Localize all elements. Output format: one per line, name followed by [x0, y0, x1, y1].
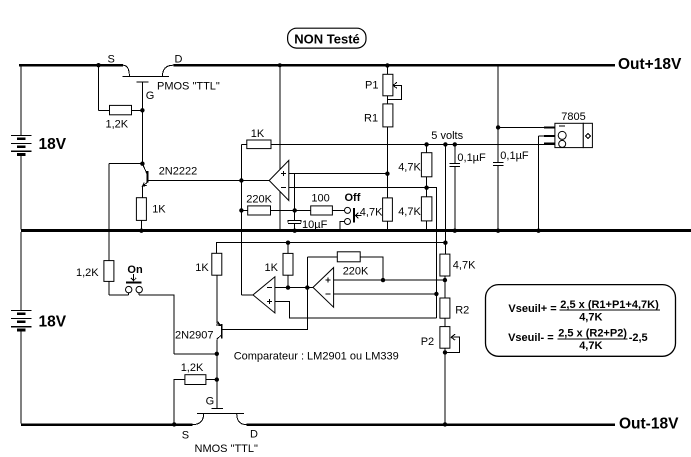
svg-text:2,5 x (R1+P1+4,7K): 2,5 x (R1+P1+4,7K): [560, 299, 659, 311]
svg-text:5 volts: 5 volts: [431, 130, 463, 142]
svg-text:2N2222: 2N2222: [159, 166, 198, 178]
svg-text:1,2K: 1,2K: [181, 362, 204, 374]
node dot C2 at 5V rail: [453, 142, 457, 146]
svg-text:1,2K: 1,2K: [76, 267, 99, 279]
op-amp U4 comparator lower right: [313, 268, 334, 308]
resistor R1: [383, 104, 393, 127]
svg-text:D: D: [250, 429, 258, 441]
resistor R13 1,2K gate: [185, 375, 206, 385]
label Vseuil- formula: [508, 328, 648, 353]
wire U3 plus detour to 2.5V: [275, 302, 437, 318]
resistor R7 100: [311, 206, 333, 215]
wire R15 left to output line: [307, 256, 337, 258]
wire P2 bottom: [444, 348, 446, 352]
capacitor C3 0,1uF: [493, 65, 504, 231]
svg-text:4,7K: 4,7K: [453, 260, 476, 272]
label plus of U4: [325, 278, 330, 283]
node dot R16/R2 junction: [443, 278, 447, 282]
svg-text:R2: R2: [455, 305, 469, 317]
label minus of U4: [325, 293, 330, 295]
wire rail to P1: [386, 65, 388, 74]
wire R8 to rail: [386, 221, 388, 231]
svg-text:G: G: [146, 90, 155, 102]
switch SW2 On: [109, 274, 143, 295]
wire U3 minus line / U4 output line: [275, 287, 313, 289]
node dot P2 bottom: [443, 350, 447, 354]
svg-text:220K: 220K: [246, 194, 272, 206]
wire P2 to Out-18V rail: [444, 352, 446, 424]
node dot R4 at rail: [139, 229, 143, 233]
resistor R5 1K pull-up 5V: [247, 140, 271, 149]
wire collector node to on-switch line: [174, 353, 217, 355]
wire R7 left: [295, 209, 311, 211]
node dot R1 chain at plus line: [385, 172, 389, 176]
node dot C1 at rail: [293, 229, 297, 233]
node dot 7805 input: [496, 125, 500, 129]
node dot Q3 collector: [215, 352, 219, 356]
node dot 1,2K right: [215, 377, 219, 381]
node dot C3 at 0V rail: [496, 229, 500, 233]
svg-text:2N2907: 2N2907: [175, 330, 214, 342]
wire R3 to gate line: [132, 109, 143, 111]
wire R5 left: [241, 143, 246, 145]
node dot P2 line at rail: [443, 422, 447, 426]
wire R6 right: [271, 209, 295, 211]
node 0V middle rail: [21, 229, 691, 232]
resistor R16 4,7K lower: [440, 254, 450, 276]
node dot R13 at rail: [172, 422, 176, 426]
wire long vertical to lower section 1,2K: [108, 164, 110, 261]
wire R2 to P2: [444, 318, 446, 326]
node Out-18V bottom rail right segment: [246, 423, 615, 426]
svg-text:18V: 18V: [39, 314, 67, 331]
node dot 2.5V at op3 minus: [434, 292, 438, 296]
wire collector node to left: [109, 163, 143, 165]
wire op1 power from +18V rail: [279, 65, 281, 231]
svg-text:1K: 1K: [265, 262, 279, 274]
svg-text:NON Testé: NON Testé: [294, 32, 360, 47]
transistor Q4 NMOS: [193, 408, 247, 424]
svg-text:1K: 1K: [251, 128, 265, 140]
node dot 100/10uF: [293, 208, 297, 212]
wire base of Q2 to comparator output: [147, 180, 269, 182]
svg-text:Out+18V: Out+18V: [618, 56, 682, 73]
node gate junction dot: [140, 108, 144, 112]
wire R4 to 0V rail: [140, 220, 142, 231]
wiper of P2: [445, 334, 460, 352]
wire 2.5V reference to lower section: [427, 188, 437, 318]
svg-text:1K: 1K: [152, 204, 166, 216]
label minus of U3: [267, 287, 272, 289]
svg-text:0,1µF: 0,1µF: [500, 150, 529, 162]
wire R14 bottom: [287, 275, 289, 287]
label plus of U3: [267, 299, 272, 304]
node 5 volts rail wire: [271, 143, 544, 145]
wire R15 right to plus line: [360, 257, 383, 280]
wire U4 plus line: [334, 279, 445, 281]
annotation formula box: [486, 285, 676, 357]
battery B1 18V upper: [11, 67, 31, 230]
wire output node vertical (1K/220K left to op2 output): [240, 144, 242, 295]
node dot 220K left at output line: [305, 285, 309, 289]
wire R9 top to 5V rail: [426, 144, 428, 152]
svg-text:PMOS "TTL": PMOS "TTL": [157, 81, 220, 93]
node 5V lower distribution rail: [217, 243, 446, 254]
node dot at 220K left: [239, 208, 243, 212]
wire R6 left: [241, 209, 247, 211]
wire On right contact to collector line: [139, 295, 174, 354]
node Out+18V top rail left segment: [19, 64, 123, 67]
svg-text:4,7K: 4,7K: [398, 206, 421, 218]
svg-text:Out-18V: Out-18V: [619, 416, 679, 433]
op-amp U3 comparator lower left: [253, 277, 275, 313]
wire collector node down to gate: [216, 354, 218, 409]
label Vseuil+ formula: [508, 299, 660, 324]
wire R14 top: [287, 243, 289, 254]
svg-text:4,7K: 4,7K: [579, 312, 602, 324]
wire R11 to 2N2907 emitter: [216, 275, 218, 323]
wire from S node down: [98, 65, 100, 110]
svg-text:0,1µF: 0,1µF: [457, 152, 486, 164]
svg-text:1K: 1K: [195, 262, 209, 274]
wiper of P1: [388, 82, 402, 99]
wire U3 output to vertical: [241, 294, 253, 296]
svg-text:100: 100: [311, 193, 329, 205]
resistor R8 4,7K: [383, 198, 393, 221]
resistor R9 4,7K divider top: [421, 153, 432, 177]
resistor R15 220K lower feedback: [337, 252, 360, 262]
svg-text:NMOS "TTL": NMOS "TTL": [195, 443, 259, 455]
svg-text:D: D: [175, 54, 183, 66]
node dot lower rail right end: [443, 241, 447, 245]
svg-text:-2,5: -2,5: [629, 332, 648, 344]
wire R13 left to Out-18V rail: [174, 380, 185, 425]
svg-text:10µF: 10µF: [302, 219, 328, 231]
svg-text:S: S: [108, 54, 115, 66]
svg-text:R1: R1: [364, 113, 378, 125]
svg-text:220K: 220K: [343, 266, 369, 278]
svg-text:G: G: [206, 396, 215, 408]
node dot 2.5V midpoint: [424, 186, 428, 190]
label minus of U1: [281, 187, 286, 189]
svg-text:P1: P1: [365, 80, 378, 92]
resistor R6 220K feedback: [248, 206, 271, 215]
potentiometer P2: [440, 327, 450, 349]
svg-text:2,5 x (R2+P2): 2,5 x (R2+P2): [558, 328, 627, 340]
resistor R12 1,2K on-button: [104, 261, 114, 282]
resistor R14 1K lower pull-up: [283, 253, 293, 275]
battery B2 18V lower: [11, 232, 31, 423]
wire U4 minus line: [334, 293, 437, 295]
resistor R10 4,7K divider bottom: [421, 197, 432, 221]
op-amp U1 comparator upper: [269, 160, 289, 200]
svg-text:S: S: [182, 430, 189, 442]
svg-text:Comparateur : LM2901 ou LM339: Comparateur : LM2901 ou LM339: [234, 351, 399, 363]
node dot R9 at 5V rail: [424, 142, 428, 146]
wire plus input drop to 100/10uF node: [294, 174, 296, 211]
capacitor C1 10uF: [288, 210, 301, 231]
svg-text:4,7K: 4,7K: [579, 340, 602, 352]
svg-text:4,7K: 4,7K: [360, 207, 383, 219]
wire R10 to rail: [426, 221, 428, 231]
wire 7805 ground to rail: [538, 136, 540, 231]
wire R9 bottom to midpoint: [426, 177, 428, 197]
node S junction dot: [96, 63, 100, 67]
node Out+18V top rail right segment: [173, 64, 615, 67]
svg-text:Vseuil- =: Vseuil- =: [508, 332, 554, 344]
node Out-18V bottom rail left segment: [21, 423, 193, 426]
node dot 1K pullup top: [286, 241, 290, 245]
node collector junction dot: [140, 162, 144, 166]
svg-text:Off: Off: [345, 192, 361, 204]
wire R16 top: [444, 243, 446, 254]
transistor Q3 2N2907: [216, 320, 222, 354]
wire gate vertical: [141, 82, 143, 164]
svg-text:P2: P2: [421, 336, 434, 348]
svg-text:18V: 18V: [39, 136, 67, 153]
resistor R11 1K lower left: [212, 253, 222, 275]
node dot 220K right at plus line: [381, 278, 385, 282]
transistor Q2 2N2222: [142, 164, 147, 198]
resistor R2: [440, 298, 450, 318]
wire Q3 base to comparator output: [222, 257, 307, 330]
capacitor C2 0,1uF: [450, 144, 461, 231]
svg-text:1,2K: 1,2K: [106, 119, 129, 131]
wire R7 right to Off switch: [332, 209, 344, 211]
node dot 7805 gnd at rail: [536, 229, 540, 233]
node dot P1 top at rail: [385, 63, 389, 67]
svg-text:4,7K: 4,7K: [398, 162, 421, 174]
node dot 1K pullup at output line: [286, 285, 290, 289]
svg-text:7805: 7805: [561, 111, 585, 123]
wire Off lower contact to rail: [340, 222, 345, 231]
wire P1 to R1: [386, 96, 388, 104]
node dot op1 power at top rail: [278, 63, 282, 67]
node dot output at base line: [239, 178, 243, 182]
transistor Q1 PMOS: [122, 65, 173, 82]
regulator U2 7805: [498, 123, 592, 147]
node dot C2 at 0V rail: [453, 229, 457, 233]
resistor R3 1,2K gate pullup: [110, 105, 132, 114]
node dot 5V branch: [443, 142, 447, 146]
wire R13 right: [206, 379, 217, 381]
potentiometer P1: [383, 74, 393, 96]
wire R1 down to 4,7K: [386, 127, 388, 198]
label plus of U1: [281, 171, 286, 176]
svg-text:On: On: [127, 264, 143, 276]
resistor R4 1K emitter: [136, 198, 146, 221]
switch SW1 Off: [345, 207, 362, 224]
wire to R3: [99, 109, 110, 111]
wire U1 minus input line: [289, 187, 427, 189]
annotation NON Teste box: [288, 28, 366, 48]
wire 5V to lower section rail: [444, 144, 446, 242]
wire R16 bottom to plus node: [444, 276, 446, 298]
wire U1 plus input line: [289, 173, 388, 175]
svg-text:Vseuil+ =: Vseuil+ =: [508, 303, 556, 315]
